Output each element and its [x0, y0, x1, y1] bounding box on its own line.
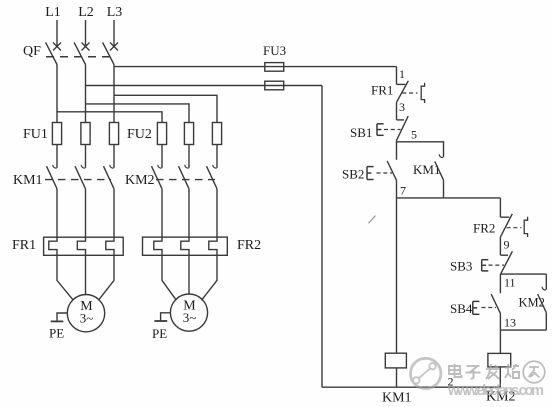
breaker QF pole 1 [46, 20, 61, 65]
FR2 trip link [507, 227, 522, 229]
wire motor2 left [162, 255, 176, 300]
wire node11 branch top [500, 274, 546, 290]
svg-text:1: 1 [399, 67, 405, 81]
label QF [23, 44, 41, 59]
SB4 link [482, 307, 497, 309]
SB2 NO contact [387, 142, 396, 181]
node 1 [399, 67, 405, 81]
node 9 [504, 238, 510, 252]
label SB3 [450, 259, 472, 274]
label FR1 [12, 238, 36, 253]
net label L2 [78, 5, 94, 20]
SB3 link [489, 264, 505, 266]
wire L3 to FU2-3 [114, 95, 217, 122]
svg-text:KM1: KM1 [13, 173, 43, 188]
svg-text:L3: L3 [107, 5, 123, 20]
label FU1 [23, 127, 48, 142]
KM2 aux hook [542, 287, 546, 290]
label KM2 coil [486, 390, 516, 405]
svg-text:7: 7 [400, 184, 406, 198]
fuse FU3 top [265, 63, 284, 72]
wire L1 to FU2-1 [57, 112, 162, 123]
SB1 button [377, 124, 384, 136]
svg-text:KM1: KM1 [382, 391, 412, 406]
svg-text:5: 5 [411, 128, 417, 142]
label FU3 [263, 43, 286, 58]
label KM1 aux [413, 162, 440, 177]
ground PE motor1 [51, 313, 68, 321]
wire L1 phase down [56, 65, 58, 123]
FR1 heater c [106, 237, 114, 255]
svg-text:QF: QF [23, 44, 41, 59]
wire 1-3 [396, 102, 398, 120]
KM1 linkage [45, 179, 111, 181]
label PE 2 [152, 326, 167, 341]
node 2 [448, 375, 454, 389]
svg-text:L1: L1 [45, 5, 61, 20]
wire L2 to FU2-2 [86, 104, 190, 123]
fuse FU1-c [109, 123, 118, 145]
coil KM2 [488, 353, 511, 367]
node 5 [411, 128, 417, 142]
FR1 heater b [77, 237, 85, 255]
KM1 aux NO contact [435, 162, 444, 198]
thermal relay FR1 box [44, 237, 124, 255]
SB2 link [377, 172, 393, 174]
stray mark [369, 216, 376, 224]
node 13 [504, 316, 516, 330]
wire motor1 mid [85, 255, 87, 294]
svg-text:FU1: FU1 [23, 127, 48, 142]
wire motor1 left [57, 255, 73, 300]
FR1 NC contact [397, 81, 409, 102]
breaker QF linkage [46, 56, 110, 58]
net label L1 [45, 5, 61, 20]
wire L2 to FU3 bottom / return [86, 85, 323, 87]
label KM1 main [13, 173, 43, 188]
fuse FU2-a [157, 123, 166, 145]
svg-text:FR2: FR2 [237, 238, 261, 253]
contactor KM1 pole 1 [47, 145, 58, 238]
FR2 heater b [181, 237, 189, 255]
contactor KM2 pole 3 [207, 145, 218, 238]
svg-text:KM2: KM2 [125, 173, 155, 188]
watermark elecfans [411, 358, 545, 399]
svg-text:www.elecfans.com: www.elecfans.com [447, 383, 544, 399]
label KM2 main [125, 173, 155, 188]
wire rung1 to coil [396, 198, 398, 353]
svg-text:SB2: SB2 [342, 167, 364, 182]
wire node5 branch top [397, 140, 444, 157]
svg-text:3: 3 [399, 100, 405, 114]
KM2 linkage [156, 179, 215, 181]
breaker QF pole 2 [74, 20, 89, 65]
wire motor1 right [98, 255, 114, 300]
label FR2 [237, 238, 261, 253]
wire node7 bus [397, 197, 501, 199]
breaker QF pole 3 [103, 20, 118, 65]
svg-text:3~: 3~ [183, 310, 197, 325]
svg-text:FU3: FU3 [263, 43, 286, 58]
label PE 1 [49, 326, 64, 341]
fuse FU1-a [52, 123, 61, 145]
svg-text:SB3: SB3 [450, 259, 472, 274]
FR1 heater a [49, 237, 57, 255]
SB3 NC contact [500, 251, 512, 274]
wire motor2 mid [188, 255, 190, 294]
coil KM1 [385, 353, 406, 368]
KM2 aux NO contact [538, 294, 547, 330]
svg-text:FU2: FU2 [127, 127, 152, 142]
wire rung2 top [499, 198, 501, 217]
contactor KM2 pole 2 [179, 145, 190, 238]
wire branch2 join [500, 329, 546, 331]
svg-text:PE: PE [49, 326, 64, 341]
FR1 trip link [402, 92, 417, 94]
wire KM1 coil down [396, 368, 398, 387]
wire motor2 right [201, 255, 217, 300]
svg-text:SB1: SB1 [350, 125, 372, 140]
motor M1 [67, 295, 104, 332]
wire rung1 top [396, 67, 398, 85]
svg-text:FR1: FR1 [371, 83, 393, 98]
node 11 [504, 276, 516, 290]
wire 9 [499, 237, 501, 255]
contactor KM1 pole 2 [75, 145, 86, 238]
label FU2 [127, 127, 152, 142]
label SB1 [350, 125, 372, 140]
fuse FU3 bottom [265, 81, 284, 90]
wire bottom bus [322, 386, 500, 388]
svg-text:3~: 3~ [80, 311, 94, 326]
SB4 button [473, 301, 480, 314]
svg-text:SB4: SB4 [450, 301, 473, 316]
SB1 link [384, 129, 401, 131]
svg-text:PE: PE [152, 326, 167, 341]
FR2 trip flag [524, 217, 527, 237]
motor M2 [170, 294, 207, 331]
label FR2 contact [473, 221, 495, 236]
contactor KM2 pole 1 [152, 145, 163, 238]
svg-text:13: 13 [504, 316, 516, 330]
node 7 [400, 184, 406, 198]
wire return left [321, 86, 323, 388]
FR2 NC contact [500, 214, 512, 237]
SB3 button [482, 260, 489, 271]
node 3 [399, 100, 405, 114]
wire rung2 to coil [499, 330, 501, 353]
contactor KM1 pole 3 [104, 145, 115, 238]
net label L3 [107, 5, 123, 20]
label SB4 [450, 301, 473, 316]
svg-text:FR1: FR1 [12, 238, 36, 253]
wire L2 phase down [85, 65, 87, 123]
SB1 NC contact [397, 116, 409, 140]
KM1 aux hook [439, 154, 443, 157]
SB2 button [367, 167, 374, 180]
wire L3 phase down [113, 65, 115, 123]
fuse FU2-c [212, 123, 221, 145]
label FR1 contact [371, 83, 393, 98]
label KM2 aux [519, 296, 545, 310]
fuse FU1-b [81, 123, 90, 145]
ground PE motor2 [154, 313, 170, 321]
svg-text:9: 9 [504, 238, 510, 252]
thermal relay FR2 box [143, 237, 228, 255]
wire KM2 coil down [499, 367, 501, 387]
FR2 heater c [209, 237, 217, 255]
svg-text:FR2: FR2 [473, 221, 495, 236]
wire L3 to FU3 top [114, 66, 397, 68]
wire SB2 down [396, 180, 398, 198]
fuse FU2-b [184, 123, 193, 145]
svg-text:11: 11 [504, 276, 516, 290]
label KM1 coil [382, 391, 412, 406]
FR2 heater a [154, 237, 162, 255]
wire SB4 down [499, 313, 501, 330]
svg-text:L2: L2 [78, 5, 94, 20]
SB4 NO contact [491, 274, 500, 313]
FR1 trip flag [421, 83, 424, 103]
label SB2 [342, 167, 364, 182]
